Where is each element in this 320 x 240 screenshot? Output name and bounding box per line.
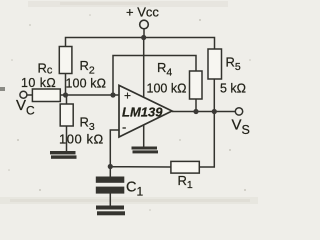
wire top rail [66, 38, 215, 50]
wire feedback from + input node to R4 top [113, 56, 196, 96]
wire R1 to C1 node [110, 166, 171, 168]
junction node dots [63, 35, 217, 169]
node Vcc rail junction [141, 35, 146, 40]
svg-text:-: - [122, 120, 126, 135]
ground under R3 [50, 151, 77, 159]
node B junction C1/R1/minus [108, 164, 113, 169]
wire op-amp ground pin [143, 125, 145, 147]
resistor R2 body [59, 47, 72, 74]
resistor Rc body [32, 89, 60, 102]
wire R2 bottom lead [65, 74, 67, 96]
ground under op-amp [132, 147, 159, 154]
op-amp U1 LM139 triangle [119, 85, 172, 137]
svg-text:+: + [124, 89, 131, 103]
resistor R4 body [190, 71, 203, 99]
svg-text:100 kΩ: 100 kΩ [66, 77, 107, 91]
node A junction Rc/R2/R3 [63, 92, 68, 97]
wire R3 top lead [66, 95, 68, 104]
wire R3 bottom lead [66, 126, 68, 151]
svg-text:100 kΩ: 100 kΩ [59, 132, 104, 147]
wire C1 top lead [109, 167, 111, 177]
node output junction R5 [212, 109, 217, 114]
svg-text:5 kΩ: 5 kΩ [220, 82, 246, 96]
wire output to VS [172, 111, 235, 113]
svg-text:10 kΩ: 10 kΩ [21, 76, 56, 90]
wire op-amp Vcc pin [143, 38, 145, 98]
wire R4 bottom lead [195, 99, 197, 112]
svg-text:LM139: LM139 [122, 105, 163, 120]
wire R5 bottom lead [213, 79, 215, 112]
terminal VS [235, 108, 242, 115]
svg-text:100 kΩ: 100 kΩ [147, 82, 187, 96]
wire Vcc terminal lead [143, 29, 145, 38]
wire output down to R1 [199, 112, 214, 168]
terminal Vcc [140, 20, 149, 29]
resistor R1 body [171, 161, 199, 173]
wire C1 bottom lead [109, 193, 111, 206]
capacitor C1 plates [96, 177, 125, 194]
resistor R5 body [208, 49, 222, 79]
ground under C1 [96, 206, 125, 216]
wire minus input to C1 node [110, 130, 119, 167]
resistor R3 body [60, 104, 73, 126]
terminal VC [20, 91, 27, 98]
wire node A horizontal (+ input) [60, 94, 119, 96]
node A junction feedback [110, 92, 115, 97]
svg-text:+ Vcc: + Vcc [126, 5, 159, 20]
wire VC to Rc [27, 94, 33, 96]
node output junction R4 [193, 109, 198, 114]
